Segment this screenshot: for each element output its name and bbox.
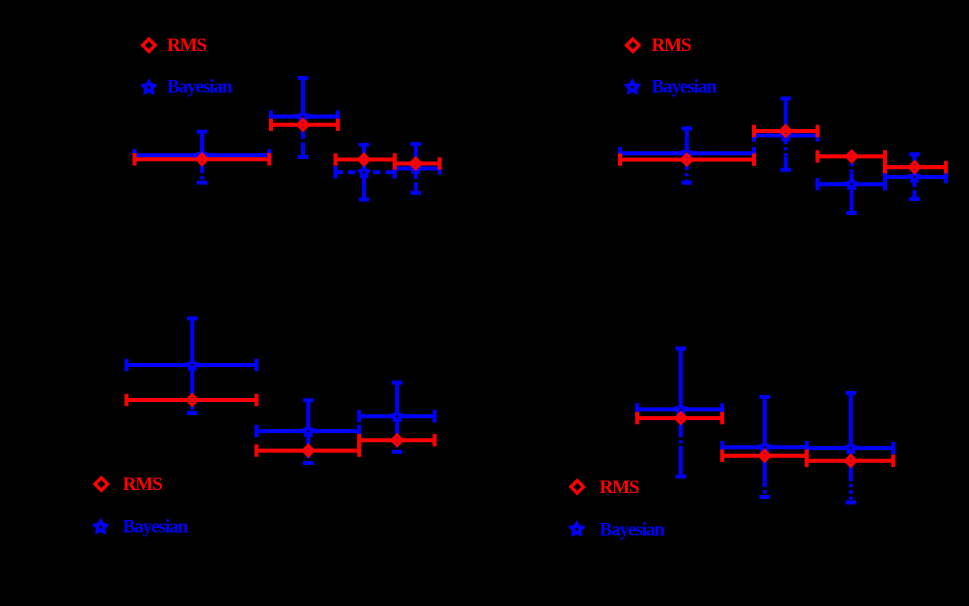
point bl-p2 red errorbars	[257, 444, 360, 456]
point tr-p1 red errorbars	[620, 153, 754, 165]
point br-p2 red errorbars	[722, 450, 807, 462]
point tl-p3 blue errorbars	[336, 145, 395, 200]
point tr-p2 red errorbars	[754, 125, 818, 137]
legend panel 3	[92, 474, 189, 537]
legend panel 4	[568, 477, 665, 541]
svg-text:RMS: RMS	[167, 35, 207, 56]
point bl-p3 red errorbars	[359, 434, 434, 446]
point tr-p4 blue star marker	[907, 169, 921, 183]
point tl-p3 red diamond marker	[359, 154, 369, 164]
point bl-p3 blue star marker	[390, 409, 404, 423]
point br-p1 red diamond marker	[676, 413, 686, 423]
svg-text:RMS: RMS	[600, 477, 640, 498]
point tr-p3 red diamond marker	[846, 151, 856, 161]
point tl-p2 red errorbars	[271, 119, 338, 131]
point tr-p2 blue errorbars	[754, 99, 818, 170]
point br-p1 blue star marker	[674, 402, 688, 416]
legend star Bayesian	[140, 78, 158, 95]
point bl-p2 blue star marker	[301, 424, 315, 438]
legend diamond RMS	[627, 39, 640, 52]
point bl-p1 blue star marker	[185, 357, 199, 371]
point tl-p4 red diamond marker	[411, 158, 421, 168]
point tl-p4 blue star marker	[408, 161, 422, 175]
point tr-p4 red errorbars	[885, 161, 946, 173]
point tr-p1 red diamond marker	[682, 154, 692, 164]
svg-text:Bayesian: Bayesian	[600, 519, 666, 540]
point br-p3 blue errorbars	[807, 393, 894, 502]
svg-text:Bayesian: Bayesian	[167, 76, 233, 97]
point tr-p2 blue star marker	[778, 128, 792, 142]
point tl-p2 red diamond marker	[298, 120, 308, 130]
point tl-p4 blue errorbars	[395, 144, 440, 193]
legend diamond RMS	[95, 478, 108, 491]
point tr-p2 red diamond marker	[781, 126, 791, 136]
point tr-p4 blue errorbars	[885, 154, 946, 199]
point bl-p2 blue errorbars	[257, 400, 360, 463]
legend star Bayesian	[624, 78, 642, 95]
point tr-p4 red diamond marker	[909, 162, 919, 172]
point tl-p1 red errorbars	[135, 153, 270, 165]
point tl-p2 blue star marker	[296, 109, 310, 123]
svg-text:Bayesian: Bayesian	[652, 76, 718, 97]
legend panel 2	[624, 35, 718, 97]
point bl-p1 blue errorbars	[127, 318, 257, 413]
point br-p3 red diamond marker	[846, 456, 856, 466]
legend panel 1	[140, 35, 233, 97]
point br-p3 red errorbars	[807, 455, 894, 467]
point tl-p3 blue star marker	[357, 165, 371, 179]
svg-text:RMS: RMS	[123, 474, 163, 495]
point bl-p3 blue errorbars	[359, 383, 434, 452]
legend star Bayesian	[92, 518, 110, 535]
point tr-p1 blue errorbars	[620, 128, 754, 182]
svg-text:RMS: RMS	[652, 35, 692, 56]
point tl-p1 blue errorbars	[135, 132, 270, 183]
legend diamond RMS	[571, 481, 584, 494]
point tl-p3 red errorbars	[336, 153, 395, 165]
point br-p2 blue star marker	[757, 440, 771, 454]
legend diamond RMS	[143, 39, 156, 52]
svg-text:Bayesian: Bayesian	[123, 517, 189, 538]
point br-p1 red errorbars	[637, 412, 722, 424]
point bl-p3 red diamond marker	[392, 435, 402, 445]
point tr-p1 blue star marker	[680, 146, 694, 160]
point tr-p3 blue errorbars	[818, 156, 886, 214]
point br-p3 blue star marker	[844, 441, 858, 455]
point bl-p1 red errorbars	[127, 394, 257, 406]
legend star Bayesian	[568, 520, 586, 537]
point br-p2 red diamond marker	[760, 451, 770, 461]
point tr-p3 red errorbars	[818, 150, 886, 162]
point tr-p3 blue star marker	[844, 177, 858, 191]
point tl-p4 red errorbars	[395, 157, 440, 169]
point tl-p2 blue errorbars	[271, 78, 338, 157]
point tl-p1 blue star marker	[195, 148, 209, 162]
point tl-p1 red diamond marker	[197, 154, 207, 164]
point bl-p1 red diamond marker	[187, 395, 197, 405]
point bl-p2 red diamond marker	[303, 445, 313, 455]
point br-p1 blue errorbars	[637, 349, 722, 477]
point br-p2 blue errorbars	[722, 397, 807, 497]
